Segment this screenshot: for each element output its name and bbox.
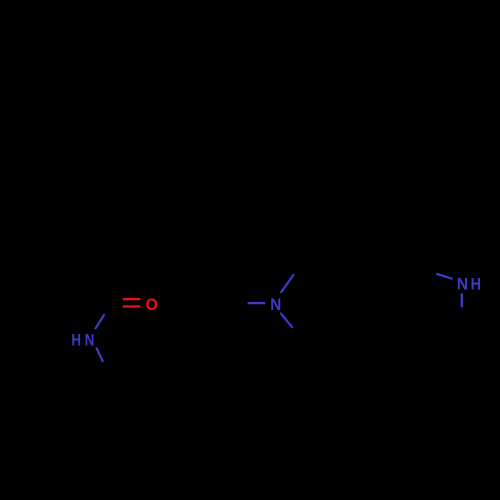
svg-text:N: N (457, 274, 468, 293)
bond HN to carbonyl carbon (blue half) (95, 314, 105, 329)
bond N up-right (blue half) (281, 274, 294, 293)
svg-text:H: H (71, 331, 81, 350)
svg-text:O: O (146, 295, 158, 314)
bond N down-right (blue half) (280, 313, 292, 328)
amide double bond C=O (upper line) (123, 298, 141, 300)
svg-text:H: H (471, 274, 481, 293)
bond N to left CH2 (blue half, horizontal) (248, 302, 266, 304)
bond NH down (blue half, vertical) (461, 294, 463, 308)
svg-text:N: N (85, 331, 95, 350)
bond NH up-left (blue half) (436, 274, 452, 279)
bond HN to N-methyl (blue half) (96, 348, 103, 362)
svg-text:N: N (270, 295, 281, 314)
amide double bond C=O (lower line) (123, 305, 141, 307)
